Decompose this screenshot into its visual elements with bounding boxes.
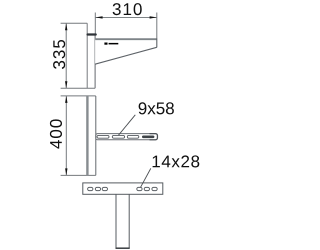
arrow left 310 [95,16,102,18]
arm right edge [156,38,158,47]
dim line 400 [65,96,67,175]
rail slot 1 [97,135,109,138]
dim line 310 [95,16,156,18]
dim text 335 (rotated) [53,40,65,69]
arrow bottom 335 [65,81,67,88]
slot L3 [102,187,107,190]
logo mark square [104,43,107,45]
post right edge [95,96,97,175]
wall plate [86,23,88,88]
dim text 400 (rotated) [50,119,62,148]
rail right end (thick) [150,134,158,140]
dim text 310 [113,3,142,15]
leader 9x58 [118,115,135,136]
extension/top edge line [61,95,96,97]
arrow bottom 400 [65,168,67,175]
dim line 335 [65,23,67,88]
leader 14x28 [141,168,151,187]
wall plate right edge [94,36,96,89]
logo mark bar [109,43,119,45]
rail slot 2 [112,135,124,138]
slot L1 [88,187,93,190]
post right edge [128,194,130,248]
rail slot 3 [127,135,139,138]
extension/bottom edge line [61,174,96,176]
slot R3 [152,187,157,190]
post left edge [115,194,117,248]
label 9x58 [139,102,174,114]
hook seam (thick dark) [88,33,96,35]
slot R1 [137,187,142,190]
arrow right 310 [150,16,157,18]
slotted rail [96,134,158,140]
rail slot 4 (dark) [142,136,154,139]
bracket arm [95,39,157,65]
arrow top 335 [65,23,67,30]
extension line right 310 [156,13,158,39]
slot L2 [95,187,100,190]
arm bottom slant [95,47,157,64]
label 14x28 [153,155,200,167]
post bottom cap [116,247,130,249]
arm top edge (thick) [95,38,156,40]
head plate [83,183,163,194]
slot R2 [144,187,149,190]
extension line bottom 335 [61,87,95,89]
extension line top 335 [61,22,88,24]
extension line left 310 [94,13,96,34]
arrow top 400 [65,96,67,103]
post left edge (thick) [86,96,88,175]
